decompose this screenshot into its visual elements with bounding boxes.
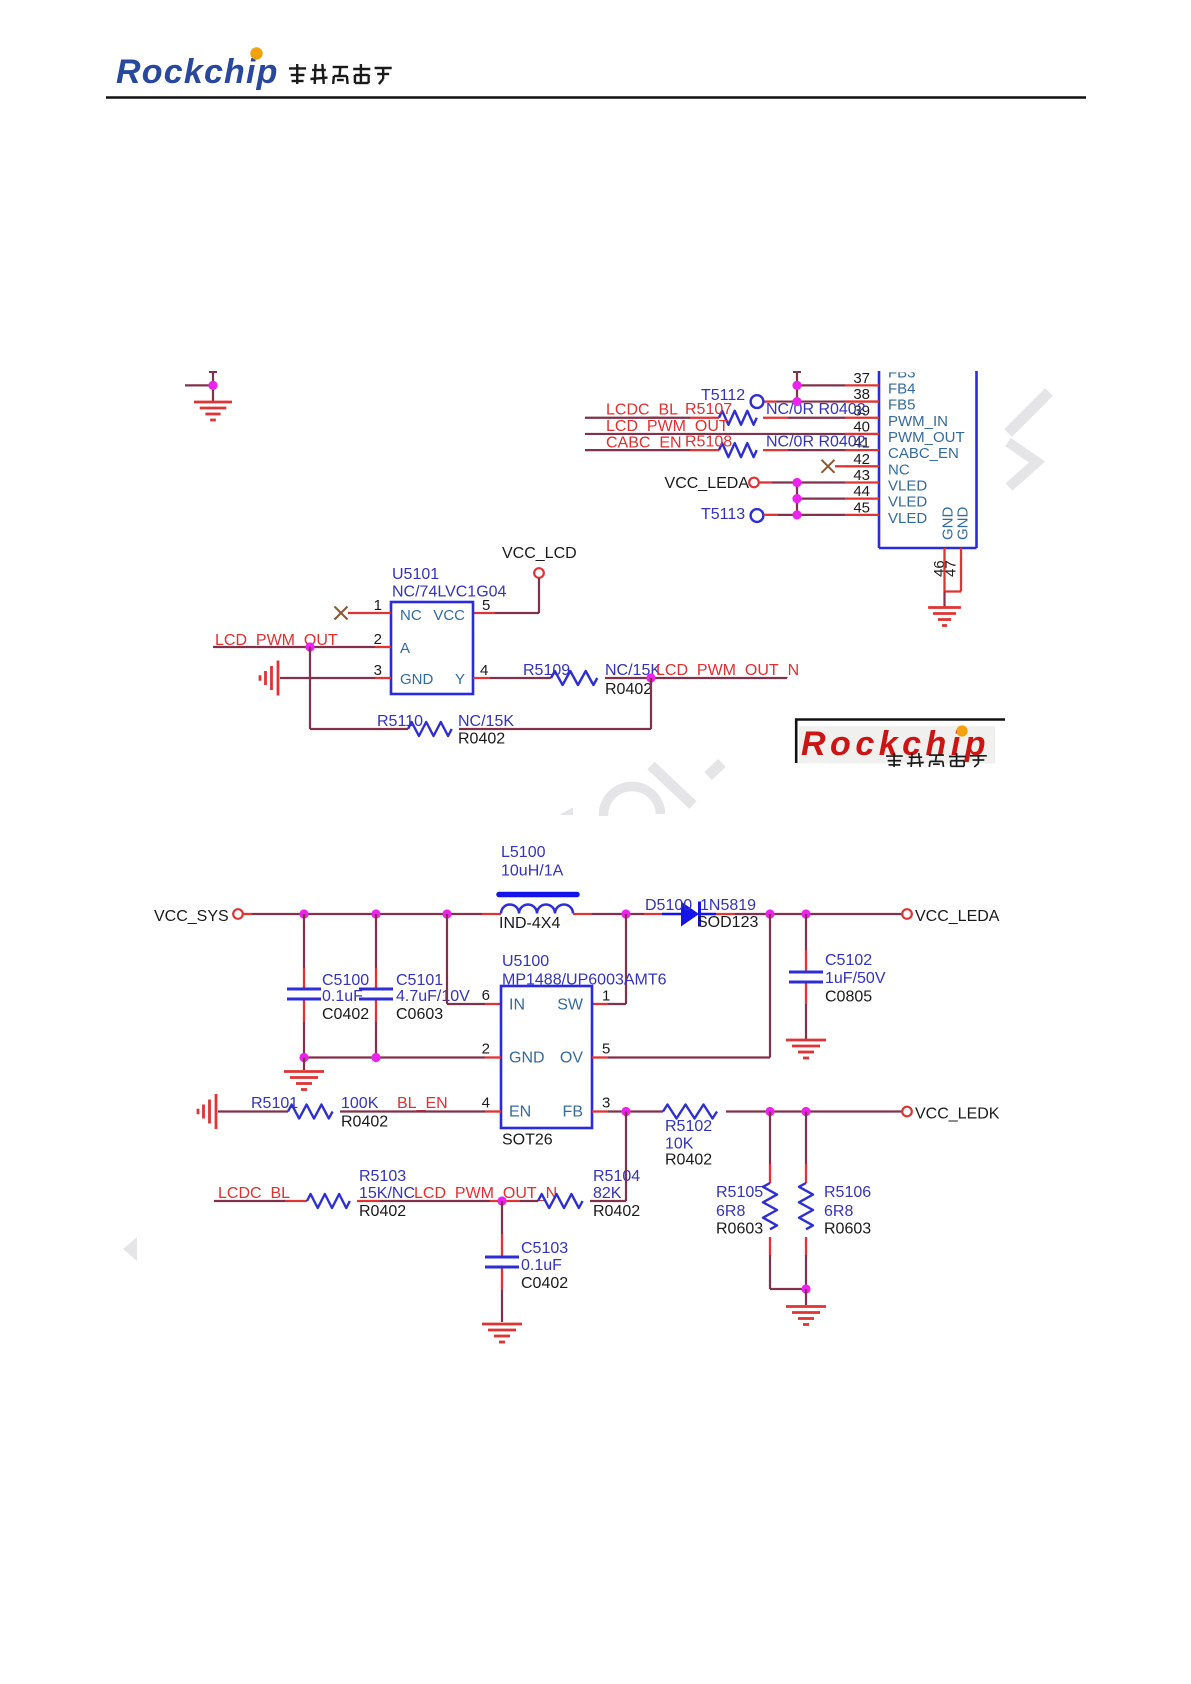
svg-text:SOD123: SOD123: [697, 914, 758, 931]
svg-text:CABC_EN: CABC_EN: [606, 435, 682, 452]
svg-text:R5110: R5110: [377, 713, 423, 730]
header Chinese company name: [289, 64, 392, 84]
connector pin stubs (red): [845, 385, 879, 514]
svg-text:LCD_PWM_OUT_N: LCD_PWM_OUT_N: [414, 1185, 557, 1202]
title block frame lines: [795, 718, 1005, 721]
svg-text:T5113: T5113: [701, 506, 745, 523]
svg-text:4: 4: [482, 1095, 490, 1112]
svg-text:R5104: R5104: [593, 1168, 640, 1185]
resistor R5110: [408, 722, 452, 736]
wire vertical at top-left ground: [212, 372, 214, 402]
svg-text:VCC: VCC: [433, 607, 465, 624]
power flag VCC_LEDK: [902, 1107, 912, 1117]
svg-text:R5109: R5109: [523, 662, 570, 679]
svg-text:R5106: R5106: [824, 1184, 871, 1201]
svg-text:2: 2: [482, 1041, 490, 1058]
wire pin2 A: [213, 646, 375, 648]
junction on LCD_PWM_OUT: [305, 642, 314, 651]
Rockchip logo (title block): [799, 725, 995, 764]
svg-text:SOT26: SOT26: [502, 1132, 553, 1149]
svg-text:R5103: R5103: [359, 1168, 406, 1185]
wire R5102 to VCC_LEDK: [726, 1110, 902, 1112]
svg-text:D5100: D5100: [645, 897, 692, 914]
svg-text:VLED: VLED: [888, 510, 927, 527]
Rockchip logo (header): [116, 47, 279, 91]
wire pin44: [797, 498, 845, 500]
wire pin43: [759, 481, 772, 483]
wire ground to R5101: [218, 1110, 288, 1112]
wire R5109 to label: [605, 677, 651, 679]
wire R5101 to EN: [340, 1110, 485, 1112]
svg-text:0.1uF: 0.1uF: [521, 1257, 562, 1274]
wire pin3 GND: [280, 677, 375, 679]
svg-text:R0603: R0603: [716, 1221, 763, 1238]
svg-text:1: 1: [602, 988, 610, 1005]
resistor R5109: [551, 671, 597, 685]
header rule: [106, 96, 1086, 98]
wire OV to rail: [592, 1056, 608, 1058]
wire FB row: [592, 1110, 608, 1112]
svg-text:R5107: R5107: [685, 401, 732, 418]
svg-text:1: 1: [374, 597, 382, 614]
capacitor C5101: [359, 914, 393, 1058]
ground (C5102): [786, 1040, 826, 1058]
svg-text:100K: 100K: [341, 1095, 379, 1112]
svg-text:R5102: R5102: [665, 1118, 712, 1135]
junction C5103 tap: [497, 1196, 506, 1205]
watermark fragment (bottom left): [123, 1237, 137, 1261]
wire pin1 U5101: [348, 612, 391, 614]
svg-text:GND: GND: [400, 671, 434, 688]
wire R5104 up to FB: [590, 1200, 626, 1202]
svg-text:R0402: R0402: [458, 731, 505, 748]
ground (R5101, left-pointing): [198, 1094, 216, 1129]
wire SW riser: [592, 1003, 608, 1005]
svg-text:10uH/1A: 10uH/1A: [501, 863, 564, 880]
wire R5103 to R5104: [357, 1200, 380, 1202]
junction dots on main rail: [299, 909, 308, 918]
resistor R5108: [719, 443, 757, 457]
inverter U5101 box: [391, 602, 473, 694]
power flag VCC_LEDA: [902, 909, 912, 919]
svg-text:IND-4X4: IND-4X4: [499, 915, 560, 932]
svg-text:VCC_LCD: VCC_LCD: [502, 545, 577, 562]
svg-text:R0402: R0402: [359, 1203, 406, 1220]
svg-text:LCD_PWM_OUT_N: LCD_PWM_OUT_N: [656, 662, 799, 679]
svg-text:VCC_LEDA: VCC_LEDA: [665, 475, 750, 492]
ground (top-left): [194, 402, 232, 420]
svg-text:VLED: VLED: [888, 494, 927, 511]
svg-text:PWM_OUT: PWM_OUT: [888, 429, 965, 446]
svg-text:R0402: R0402: [341, 1114, 388, 1131]
wire VCC_LCD to pin5: [538, 578, 540, 613]
diode D5100: [662, 902, 716, 927]
wire IN riser: [446, 914, 448, 1004]
svg-text:5: 5: [602, 1041, 610, 1058]
svg-text:VLED: VLED: [888, 477, 927, 494]
svg-text:C0603: C0603: [396, 1006, 443, 1023]
main rail VCC_SYS wire: [243, 913, 252, 915]
svg-text:GND: GND: [955, 507, 972, 541]
svg-text:10K: 10K: [665, 1136, 694, 1153]
svg-text:R5108: R5108: [685, 434, 732, 451]
svg-text:BL_EN: BL_EN: [397, 1095, 448, 1112]
wire pin45: [764, 514, 779, 516]
junction R5109/R5110: [646, 673, 655, 682]
inductor L5100: [499, 844, 577, 932]
wire R5110 row: [459, 728, 651, 730]
resistor R5106: [799, 1112, 813, 1290]
wire pin40: [585, 433, 845, 435]
svg-text:FB: FB: [563, 1104, 583, 1121]
svg-text:3: 3: [374, 662, 382, 679]
resistor R5105: [763, 1112, 777, 1290]
wire R5105/R5106 join: [770, 1288, 806, 1290]
connector pin numbers 37-45: [853, 370, 870, 516]
junction R5106 bottom: [801, 1284, 810, 1293]
svg-text:6R8: 6R8: [824, 1203, 853, 1220]
wire GND row pin2: [304, 1056, 485, 1058]
ground (connector GND): [928, 608, 961, 626]
svg-text:4: 4: [480, 662, 488, 679]
svg-text:6R8: 6R8: [716, 1203, 745, 1220]
svg-text:NC/15K: NC/15K: [458, 713, 514, 730]
svg-text:4.7uF/10V: 4.7uF/10V: [396, 988, 470, 1005]
watermark fragment (center): [559, 763, 722, 816]
vertical bus (pins 37-38): [796, 372, 798, 402]
wire pin42: [835, 465, 845, 467]
svg-text:C5101: C5101: [396, 972, 443, 989]
rail diode to VCC_LEDA: [716, 913, 735, 915]
title block Chinese name: [886, 753, 987, 767]
svg-text:FB4: FB4: [888, 380, 916, 397]
wire pin37: [797, 384, 845, 386]
wire pin41 (CABC_EN): [585, 449, 690, 451]
svg-text:C0402: C0402: [322, 1006, 369, 1023]
svg-text:C5100: C5100: [322, 972, 369, 989]
resistor R5101: [288, 1105, 333, 1119]
resistor R5102: [663, 1105, 717, 1119]
resistor R5107: [719, 411, 757, 425]
GND pins 46-47 tail: [931, 548, 961, 607]
svg-text:U5100: U5100: [502, 953, 549, 970]
ground (C5103): [482, 1324, 522, 1342]
svg-text:R0402: R0402: [593, 1203, 640, 1220]
svg-text:L5100: L5100: [501, 844, 546, 861]
svg-text:EN: EN: [509, 1104, 531, 1121]
svg-text:R5101: R5101: [251, 1095, 298, 1112]
svg-text:1N5819: 1N5819: [700, 897, 756, 914]
capacitor C5102: [789, 914, 823, 1039]
svg-text:SW: SW: [557, 997, 584, 1014]
svg-text:LCDC_BL: LCDC_BL: [218, 1185, 290, 1202]
svg-text:2: 2: [374, 631, 382, 648]
regulator U5100 box: [501, 986, 592, 1128]
svg-text:U5101: U5101: [392, 566, 439, 583]
svg-text:R0402: R0402: [605, 681, 652, 698]
svg-text:VCC_LEDK: VCC_LEDK: [915, 1106, 1000, 1123]
svg-text:A: A: [400, 640, 410, 657]
svg-text:VCC_LEDA: VCC_LEDA: [915, 908, 1000, 925]
svg-text:C0402: C0402: [521, 1275, 568, 1292]
svg-text:OV: OV: [560, 1050, 583, 1067]
svg-text:NC/0R R0402: NC/0R R0402: [766, 434, 866, 451]
no-connect X pin1 U5101: [335, 607, 348, 620]
ground (C5100/C5101): [303, 1058, 305, 1071]
svg-text:NC: NC: [400, 607, 422, 624]
rail inductor to diode: [573, 913, 592, 915]
svg-text:CABC_EN: CABC_EN: [888, 445, 959, 462]
svg-text:0.1uF: 0.1uF: [322, 988, 363, 1005]
wire down to R5110: [650, 678, 652, 729]
svg-text:3: 3: [602, 1095, 610, 1112]
svg-text:R5105: R5105: [716, 1184, 763, 1201]
wire LCDC_BL to R5103: [214, 1200, 285, 1202]
connector U (right box, pins 37-47): [780, 350, 1000, 548]
svg-text:LCDC_BL: LCDC_BL: [606, 402, 678, 419]
resistor R5104: [538, 1194, 583, 1208]
svg-text:1uF/50V: 1uF/50V: [825, 970, 886, 987]
svg-text:GND: GND: [509, 1050, 545, 1067]
wire stub into top-left ground node: [185, 384, 213, 386]
svg-text:NC/0R R0402: NC/0R R0402: [766, 401, 866, 418]
capacitor C5100: [287, 914, 321, 1058]
vertical bus (pins 43-45): [796, 482, 798, 514]
watermark fragment (top right): [1008, 392, 1049, 487]
svg-text:PWM_IN: PWM_IN: [888, 413, 948, 430]
wire pin39 (LCDC_BL): [585, 417, 690, 419]
svg-text:LCD_PWM_OUT: LCD_PWM_OUT: [606, 418, 729, 435]
wire pin38 from T5112: [764, 400, 777, 402]
wire branch LCD_PWM_OUT down: [309, 647, 311, 729]
ground (R5105/R5106): [786, 1307, 826, 1325]
node junction top-left: [208, 381, 217, 390]
junctions VCC_LEDK rail: [765, 1107, 774, 1116]
svg-text:C0805: C0805: [825, 989, 872, 1006]
resistor R5103: [307, 1194, 350, 1208]
svg-text:R0603: R0603: [824, 1221, 871, 1238]
wire pin4 Y to R5109: [473, 677, 490, 679]
no-connect X pin42: [822, 460, 835, 473]
svg-text:82K: 82K: [593, 1185, 622, 1202]
svg-text:C5102: C5102: [825, 952, 872, 969]
svg-text:6: 6: [482, 987, 490, 1004]
svg-text:IN: IN: [509, 997, 525, 1014]
svg-text:VCC_SYS: VCC_SYS: [154, 908, 229, 925]
svg-text:NC: NC: [888, 461, 910, 478]
capacitor C5103: [485, 1201, 519, 1322]
svg-text:R0402: R0402: [665, 1152, 712, 1169]
junction dots on connector bus: [792, 381, 801, 390]
junctions GND row: [299, 1053, 308, 1062]
svg-text:5: 5: [482, 597, 490, 614]
ground (U5101 pin3, left-pointing): [260, 661, 278, 696]
wire to ground: [805, 1289, 807, 1305]
svg-text:C5103: C5103: [521, 1240, 568, 1257]
svg-text:15K/NC: 15K/NC: [359, 1185, 415, 1202]
junction FB: [621, 1107, 630, 1116]
svg-text:Y: Y: [455, 671, 465, 688]
svg-text:FB5: FB5: [888, 397, 916, 414]
